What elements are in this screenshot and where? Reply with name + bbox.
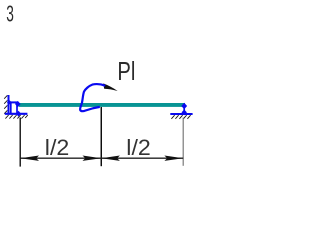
right support: ground hatching: [171, 115, 190, 119]
beam: [19, 103, 185, 107]
right support: pin at ground: [182, 110, 187, 116]
left support: ground line: [5, 113, 28, 115]
left support: pin at ground: [16, 111, 21, 117]
right support: pin at beam end: [181, 103, 187, 109]
svg-text:l/2: l/2: [45, 135, 70, 160]
left support: square right vertical: [16, 102, 18, 113]
left support: ground hatching: [5, 115, 27, 119]
svg-text:l/2: l/2: [126, 135, 151, 160]
dimension: right extension line (gray): [182, 118, 184, 166]
left support: wall hatching: [4, 95, 7, 113]
left support: pin at beam end: [15, 101, 21, 107]
moment arrowhead: [103, 83, 117, 91]
right support: ground line: [170, 113, 192, 115]
dimension arrows at middle: [83, 156, 102, 161]
moment arc (applied moment, spiral from beam midpoint): [80, 84, 105, 111]
dimension arrow right (points right): [164, 156, 183, 161]
svg-text:Pl: Pl: [117, 58, 135, 86]
left support: wall line: [8, 95, 10, 115]
left support: square left vertical: [10, 102, 12, 113]
left support: horizontal link: [9, 101, 18, 103]
left support: pin at wall joint: [7, 100, 12, 105]
node: middle extension line at beam midpoint: [100, 107, 102, 166]
svg-text:3: 3: [6, 0, 14, 26]
dimension arrow left (points left): [20, 156, 39, 161]
dimension: left extension line: [19, 118, 21, 167]
dimension line: [20, 157, 183, 159]
right support: link: [183, 106, 185, 113]
